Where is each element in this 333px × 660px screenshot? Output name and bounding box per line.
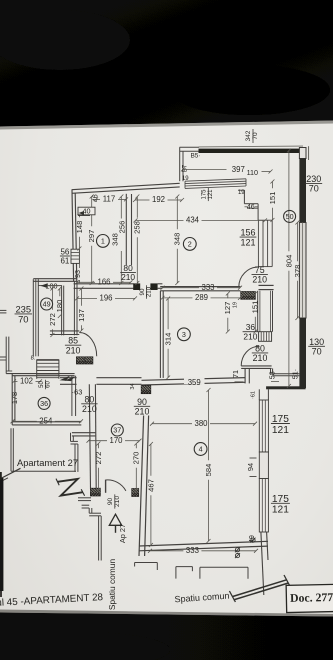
room label 3 — [178, 328, 191, 341]
svg-text:359: 359 — [188, 378, 201, 387]
dim 61 small step — [251, 391, 257, 399]
arrow Ap 27 — [109, 514, 121, 533]
label 56/61 window — [60, 248, 70, 266]
svg-text:80: 80 — [255, 343, 265, 353]
svg-text:210: 210 — [135, 406, 150, 416]
label 342/70 top — [245, 129, 259, 143]
wall spine below room2 — [160, 287, 240, 291]
wall ap27 left — [11, 428, 13, 471]
dim 434 room2 — [134, 216, 268, 225]
svg-text:Doc. 277: Doc. 277 — [290, 590, 333, 605]
text 359 on wall — [188, 378, 201, 387]
photo black band bottom — [0, 610, 333, 660]
svg-text:333: 333 — [201, 283, 214, 292]
dim 51 nook — [290, 369, 299, 379]
dim 378 right window — [293, 221, 302, 321]
svg-text:2: 2 — [188, 240, 192, 249]
window room4 right lower — [259, 479, 268, 533]
label B7 balcony — [183, 164, 189, 172]
dim 272 corridor — [94, 442, 103, 493]
dim 314 room3 — [164, 297, 173, 380]
label 230/70 right — [305, 174, 322, 194]
dim 151 shaft — [251, 292, 260, 334]
dim 58 nook — [268, 369, 280, 382]
dim 272 room49 — [48, 287, 57, 338]
svg-text:230: 230 — [306, 174, 321, 184]
dim 137 hall — [77, 287, 86, 333]
svg-text:19: 19 — [233, 302, 239, 308]
room label 49 — [41, 298, 53, 310]
label 175/121 right upper — [271, 414, 290, 436]
svg-text:178: 178 — [10, 392, 19, 404]
svg-text:4: 4 — [199, 445, 203, 454]
dim 117 room1 — [94, 195, 128, 204]
svg-text:3: 3 — [182, 330, 186, 339]
shaft walls below room2 — [258, 291, 273, 332]
svg-text:258: 258 — [133, 221, 142, 234]
dim 178 room36 — [10, 392, 19, 404]
svg-text:272: 272 — [48, 313, 57, 326]
svg-text:127: 127 — [223, 302, 232, 315]
svg-text:148: 148 — [75, 221, 84, 234]
wall connector bottom-right (dark) — [266, 386, 306, 389]
svg-text:210: 210 — [82, 404, 97, 414]
svg-text:196: 196 — [99, 294, 112, 303]
svg-text:175: 175 — [202, 189, 208, 200]
wall spine below rooms1 (left) — [74, 284, 134, 289]
wall corridor to ap27 — [72, 433, 96, 436]
dim 19 balcony left — [182, 176, 189, 182]
wall room36 right — [72, 376, 76, 416]
svg-text:60: 60 — [45, 381, 51, 388]
bracket common space B — [200, 567, 248, 578]
zigzag Z symbol apartament27 — [56, 479, 85, 496]
svg-text:90: 90 — [137, 397, 147, 407]
tick circles room4 bottom — [235, 538, 256, 558]
svg-text:130: 130 — [309, 337, 324, 347]
label 85/210 door vestibule — [65, 336, 81, 356]
window shaft vertical band — [258, 220, 272, 266]
striped wall block (vent) — [259, 332, 272, 342]
wall balcony top (exterior, thick) — [180, 146, 304, 153]
svg-text:Spatiu comun: Spatiu comun — [107, 559, 117, 611]
door arc vestibule (85/210) — [79, 333, 96, 357]
label 90/210 spine rotated — [139, 285, 153, 299]
svg-text:1: 1 — [101, 237, 105, 246]
dim 94 right pier — [246, 458, 257, 477]
door arc room3 upper (80/210) — [241, 346, 259, 366]
wall right exterior lower (dark) — [299, 318, 306, 388]
dim 46 balcony step — [245, 202, 259, 211]
label 130/70 right — [308, 337, 325, 357]
dim 34 small — [130, 383, 136, 389]
wall room36 top — [6, 374, 74, 376]
dim 19 balcony right — [238, 190, 245, 196]
svg-text:378: 378 — [293, 265, 302, 278]
dim 71 nook — [231, 370, 244, 382]
label 175/121 right lower — [271, 494, 290, 516]
zigzag break symbol bottom — [229, 575, 290, 602]
label 90/210 bottom rotated — [107, 494, 121, 508]
svg-text:210: 210 — [114, 496, 121, 507]
svg-text:49: 49 — [43, 300, 51, 309]
svg-text:·61: ·61 — [251, 391, 257, 399]
svg-text:121: 121 — [272, 425, 289, 436]
svg-text:137: 137 — [77, 309, 86, 322]
window room1 left (56/61) — [71, 249, 79, 263]
svg-text:151: 151 — [251, 301, 260, 314]
svg-text:434: 434 — [186, 216, 200, 225]
dim 270 corridor — [132, 442, 141, 493]
wall nook jamb — [245, 368, 249, 383]
dim 148 room1 — [75, 211, 84, 251]
door leaf corridor bottom — [105, 480, 107, 493]
dim 127 shaft — [223, 292, 232, 334]
room label 37 — [111, 424, 123, 436]
svg-text:70: 70 — [309, 184, 319, 194]
wall room1 left — [72, 190, 77, 282]
wall below corridor door — [78, 498, 101, 561]
dim 196 room1 bottom — [75, 294, 137, 303]
wall right exterior upper (dark) — [299, 146, 308, 222]
svg-text:Ap 27: Ap 27 — [118, 524, 127, 543]
pier hatched vestibule B — [78, 357, 98, 364]
svg-text:51·: 51· — [290, 369, 299, 379]
svg-text:80: 80 — [85, 394, 95, 404]
wall left edge lower — [6, 337, 12, 374]
svg-text:380: 380 — [194, 419, 208, 428]
pier hatched vestibule A — [70, 357, 90, 364]
dim 46 room1 top — [92, 194, 99, 202]
svg-text:93: 93 — [73, 270, 82, 278]
text Ap 27 rotated — [118, 524, 127, 543]
wall corridor left — [89, 384, 96, 489]
pier spine left of door — [133, 283, 140, 290]
wall balcony left — [180, 147, 183, 181]
svg-text:210: 210 — [243, 331, 257, 341]
svg-text:270: 270 — [132, 452, 141, 465]
dim 254 room36 — [11, 417, 84, 426]
svg-text:70: 70 — [18, 314, 28, 325]
svg-text:121: 121 — [208, 189, 214, 200]
svg-text:192: 192 — [152, 195, 165, 204]
wall 49area inner right — [62, 286, 64, 336]
svg-text:151: 151 — [268, 192, 277, 205]
svg-text:210: 210 — [145, 286, 152, 297]
wall partition rooms 1|2 — [126, 194, 131, 265]
svg-text:75: 75 — [255, 265, 265, 275]
wall 49area left (3 lines) — [33, 279, 38, 356]
svg-text:102: 102 — [20, 377, 33, 386]
wall room4 left — [139, 416, 149, 557]
wall balcony step right — [238, 190, 258, 220]
svg-text:B7: B7 — [183, 164, 189, 172]
svg-text:166: 166 — [97, 278, 110, 287]
dim 804 right wall — [284, 149, 293, 389]
label 36/210 shaft — [243, 322, 259, 341]
svg-text:210: 210 — [253, 353, 268, 363]
door arc corridor bottom — [106, 480, 126, 491]
svg-text:256: 256 — [118, 221, 127, 234]
text APARTAMENT 28 — [0, 592, 104, 609]
dim 333 room4 bottom — [148, 546, 258, 555]
wall 49area top — [33, 279, 77, 286]
svg-text:71: 71 — [231, 370, 240, 378]
dim 467 corridor — [146, 442, 155, 547]
svg-text:85: 85 — [68, 336, 78, 346]
svg-text:36: 36 — [40, 399, 48, 408]
wall room36 left — [12, 374, 15, 425]
dim 289 below spine — [161, 293, 243, 302]
svg-text:210: 210 — [66, 345, 81, 355]
svg-text:342: 342 — [245, 130, 252, 141]
line ap27 bottom — [11, 470, 76, 472]
svg-text:254: 254 — [39, 417, 53, 426]
svg-text:110: 110 — [247, 168, 258, 177]
label 50/60 room36 — [39, 380, 51, 389]
dim 40 room1 box — [78, 207, 95, 216]
svg-text:46: 46 — [247, 202, 255, 211]
svg-text:297: 297 — [87, 230, 96, 243]
dim 151 balcony — [268, 180, 277, 223]
svg-text:94: 94 — [246, 463, 255, 471]
svg-text:180: 180 — [55, 300, 64, 313]
svg-text:34: 34 — [130, 383, 136, 389]
dim 348 room2 — [173, 195, 182, 286]
svg-text:46: 46 — [92, 194, 99, 202]
svg-text:70: 70 — [312, 347, 322, 357]
dim 166 room1 bottom — [75, 278, 133, 287]
svg-text:50: 50 — [286, 212, 294, 221]
dim 100 with arrow — [41, 282, 63, 291]
svg-text:Apartament 27: Apartament 27 — [17, 458, 78, 468]
photo black band top — [0, 0, 333, 130]
svg-text:289: 289 — [195, 293, 208, 302]
room label 2 — [183, 238, 196, 251]
window right wall — [299, 223, 306, 319]
dim 19 shaft small — [233, 302, 239, 308]
svg-text:37: 37 — [113, 426, 121, 435]
left edge marks — [0, 310, 6, 360]
wall top of rooms 1-2 — [72, 183, 180, 193]
svg-text:61: 61 — [60, 256, 69, 265]
svg-text:90: 90 — [107, 498, 114, 506]
dim 93 room1 left — [73, 264, 82, 284]
svg-text:584: 584 — [204, 464, 213, 477]
svg-text:333: 333 — [186, 546, 199, 555]
bracket common space A — [176, 567, 193, 579]
wall nook bottom — [241, 366, 271, 369]
dim 397-110 balcony — [181, 165, 273, 177]
wall room36 bottom — [12, 422, 81, 425]
pier hatched room4 left top — [133, 386, 157, 394]
wall hall left — [74, 281, 77, 335]
dim 333 above spine — [161, 283, 243, 292]
svg-text:272: 272 — [94, 452, 103, 465]
dim 180 room49 — [55, 287, 64, 319]
text Spatiu comun horizontal — [174, 591, 230, 605]
svg-text:58·: 58· — [268, 369, 277, 379]
label 90/210 door room4 — [134, 397, 150, 417]
svg-text:121: 121 — [240, 237, 255, 247]
svg-text:B5·: B5· — [190, 153, 200, 160]
label 156/121 window — [240, 228, 257, 248]
room label 4 — [194, 443, 207, 456]
text Spatiu comun vertical — [107, 559, 117, 611]
label B5 — [190, 153, 200, 160]
svg-text:170: 170 — [109, 436, 123, 445]
wall room3 left — [160, 291, 163, 378]
doc box — [286, 584, 333, 612]
label 8 small — [31, 356, 36, 362]
svg-text:348: 348 — [173, 233, 182, 246]
pier hatched corridor door right — [124, 489, 145, 497]
wall right of spatiu comun — [261, 532, 268, 595]
svg-text:19: 19 — [182, 176, 189, 182]
wall vestibule top — [50, 331, 79, 335]
line common space step — [135, 563, 158, 571]
svg-text:156: 156 — [240, 228, 255, 238]
label 235/70 left — [15, 303, 32, 324]
pier hatched below door75 — [233, 292, 261, 300]
svg-text:56: 56 — [60, 248, 69, 257]
svg-text:117: 117 — [103, 195, 115, 204]
svg-text:467: 467 — [146, 479, 155, 492]
dim 170 corridor37 — [87, 436, 142, 445]
svg-text:314: 314 — [164, 333, 173, 346]
wall spine right of door75 — [259, 285, 274, 289]
pier hatched corridor door left — [83, 488, 106, 496]
wall room4 bottom — [139, 541, 268, 551]
wall room3 bottom — [142, 377, 246, 385]
window room4 right upper — [259, 400, 268, 452]
label 175/121 balcony — [202, 188, 214, 201]
label 75/210 door room2 — [252, 265, 268, 285]
dim 297 room1 — [87, 195, 96, 286]
arrow marks vestibule — [60, 376, 76, 381]
svg-text:70: 70 — [252, 132, 259, 140]
wall spine stub — [158, 284, 163, 289]
wall stub right window top — [259, 389, 268, 400]
wall nook right step — [271, 368, 300, 375]
dim 584 room4 — [204, 388, 213, 543]
room label 1 — [97, 235, 110, 248]
dim 49 right lower — [249, 535, 258, 546]
dim 192 room2 — [133, 195, 184, 204]
dim 380 room4 — [150, 419, 257, 428]
door arc room2 (75/210) — [239, 267, 259, 287]
svg-text:210: 210 — [252, 275, 267, 285]
svg-text:8.: 8. — [31, 356, 36, 362]
stairs ladder symbol — [37, 360, 59, 379]
text Doc. 277 — [290, 590, 333, 605]
svg-text:19: 19 — [238, 190, 245, 196]
text Apartament 27 — [17, 458, 78, 468]
wall corridor top — [60, 378, 142, 385]
room label 50 — [284, 210, 296, 222]
photo left edge strip — [0, 472, 3, 597]
pier spine right of door — [150, 283, 157, 290]
dim 63 pier — [72, 388, 83, 397]
svg-text:121: 121 — [272, 505, 289, 516]
dim 102 room36 — [12, 377, 42, 386]
label 80/210 nook — [252, 343, 268, 363]
room label 36 — [38, 397, 50, 409]
svg-text:348: 348 — [111, 233, 120, 246]
wall ap27 step — [71, 433, 78, 472]
svg-text:50: 50 — [39, 381, 45, 388]
svg-text:397: 397 — [232, 165, 245, 174]
diagonal leader to left edge — [0, 468, 21, 482]
pier between windows room4 — [259, 452, 268, 479]
label 80/210 door rooms1-2 — [120, 263, 136, 282]
label 80/210 door corridor — [81, 394, 97, 414]
svg-text:·63: ·63 — [72, 388, 83, 397]
dim 258 room1 — [133, 195, 142, 286]
window balcony band (4 lines) — [185, 179, 246, 189]
svg-text:210: 210 — [121, 272, 135, 282]
dim 348-256 shared line — [111, 195, 127, 286]
